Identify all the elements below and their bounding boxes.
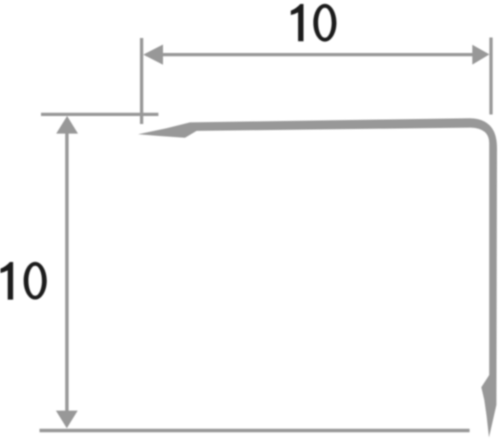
arrowhead (top dimension, left): [143, 45, 163, 65]
extension line (top dimension, left vertical): [140, 38, 143, 124]
dimension label left "10" digit 1: [0, 262, 13, 300]
arrowhead (left dimension, bottom): [56, 411, 78, 429]
extension line (left dimension, upper horizontal): [41, 113, 158, 116]
dimension label left "10" digit 0: [24, 262, 47, 300]
extension line (top dimension, right vertical): [489, 38, 492, 115]
dimension label top "10" digit 1: [291, 4, 304, 41]
dimension label top "10" digit 0: [313, 4, 336, 42]
arrowhead (top dimension, right): [472, 45, 489, 65]
extension line (left dimension, lower horizontal): [40, 429, 470, 433]
dimension line (top, horizontal): [146, 53, 486, 56]
arrowhead (left dimension, top): [56, 116, 78, 134]
profile: aluminium L-angle cross-section with chisel tip and spiked leg: [138, 118, 497, 437]
dimension line (left, vertical): [65, 125, 68, 418]
